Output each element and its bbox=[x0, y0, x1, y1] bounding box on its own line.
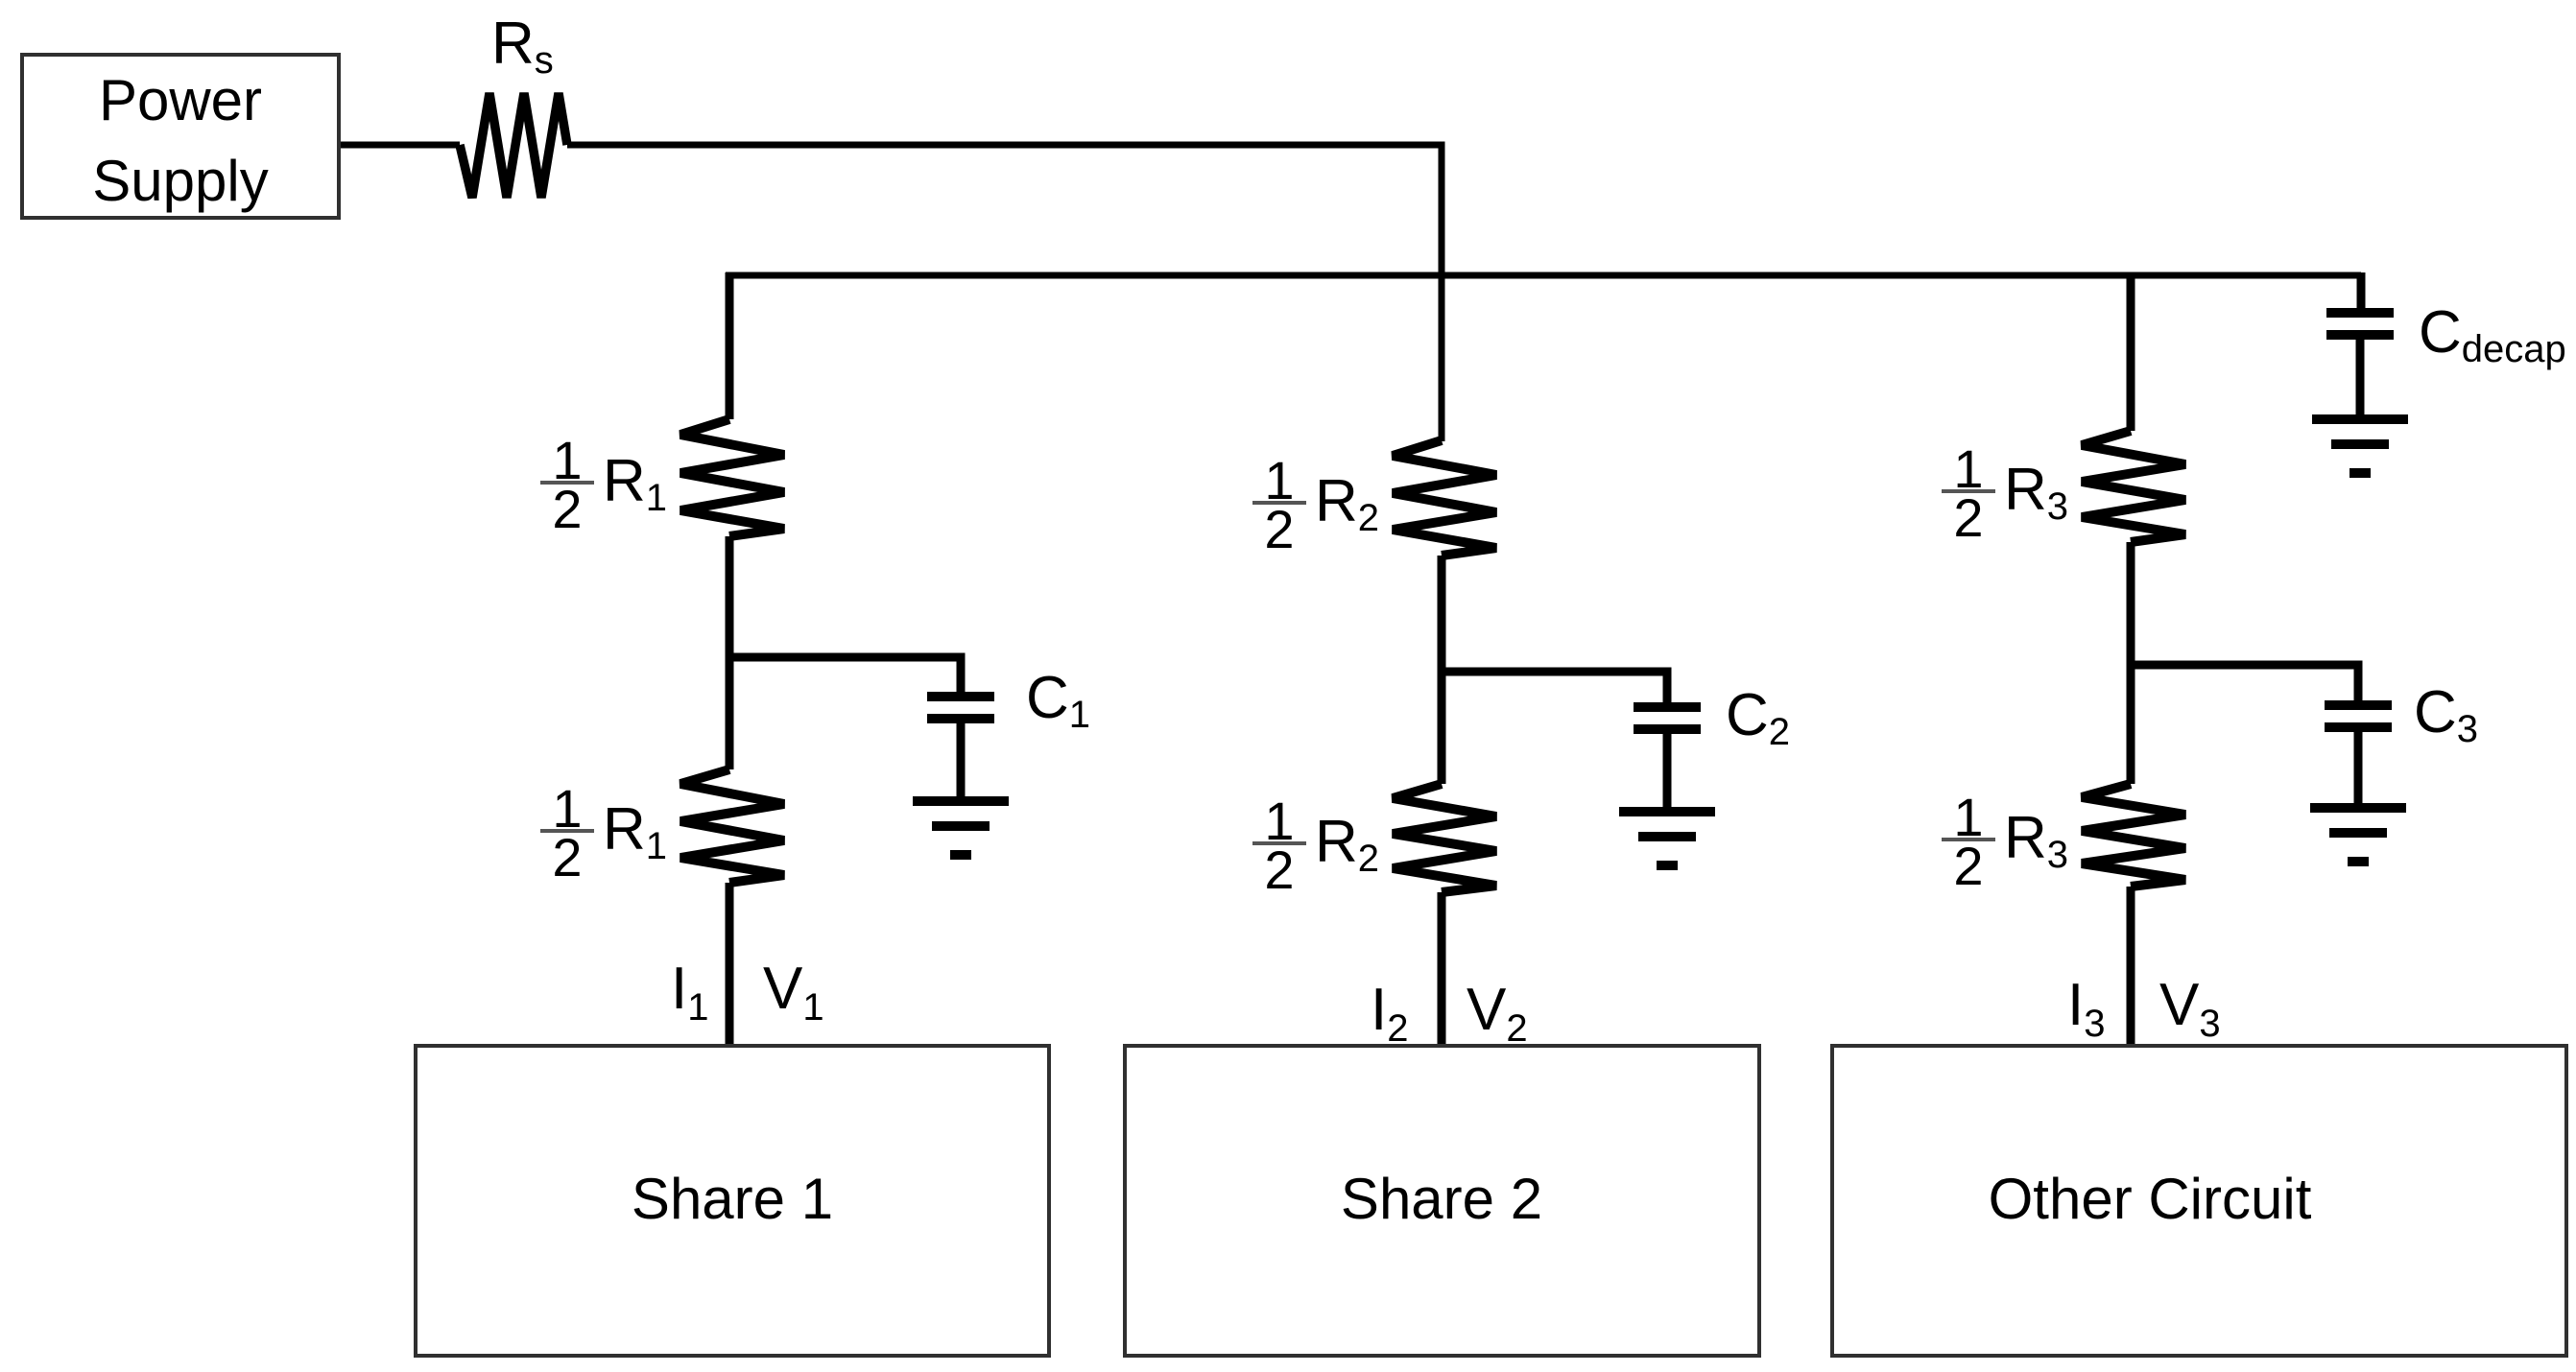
svg-text:2: 2 bbox=[1953, 836, 1983, 896]
svg-text:Other Circuit: Other Circuit bbox=[1989, 1167, 2312, 1231]
svg-text:Share 2: Share 2 bbox=[1341, 1167, 1542, 1231]
svg-text:2: 2 bbox=[1264, 499, 1294, 559]
svg-text:Share 1: Share 1 bbox=[632, 1167, 833, 1231]
svg-text:2: 2 bbox=[552, 827, 582, 887]
svg-text:Supply: Supply bbox=[92, 149, 268, 213]
svg-text:2: 2 bbox=[552, 479, 582, 539]
svg-text:2: 2 bbox=[1264, 840, 1294, 900]
svg-text:2: 2 bbox=[1953, 487, 1983, 548]
svg-text:Power: Power bbox=[99, 68, 262, 132]
